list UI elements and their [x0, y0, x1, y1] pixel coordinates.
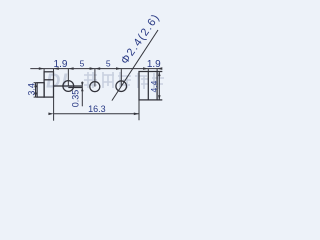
svg-text:0.35: 0.35 [71, 90, 81, 108]
dim 16.3 extension line right [138, 100, 140, 120]
top dimension line [30, 68, 161, 70]
dim 4.4 dimension line [158, 72, 160, 100]
svg-text:3.4: 3.4 [27, 83, 37, 96]
dim 3.4 dimension line [35, 83, 37, 97]
watermark [46, 71, 164, 93]
dim 3.4 arrows [34, 83, 37, 88]
left block divider [44, 79, 53, 81]
dim 1.9 left arrows [39, 67, 44, 70]
dim 4.4 arrows [158, 72, 161, 77]
dia leader line [112, 30, 158, 101]
left tab [37, 83, 44, 97]
extension line left block left edge [43, 69, 45, 72]
dim 16.3 arrows [48, 113, 53, 116]
right block [139, 72, 157, 100]
svg-text:5: 5 [80, 59, 85, 69]
dim 1.9 right arrows [143, 67, 148, 70]
dim 0.35 leader line [81, 82, 83, 107]
center line hole 1 [67, 69, 69, 86]
svg-text:5: 5 [106, 59, 111, 69]
extension line right block right edge [156, 69, 158, 72]
center line hole 2 [94, 69, 96, 87]
drawing lines [37, 72, 162, 100]
center line hole 3 [120, 69, 122, 87]
hole 3 [116, 81, 127, 92]
dim 5 second arrows [95, 67, 100, 70]
svg-text:1.9: 1.9 [147, 59, 161, 70]
svg-text:16.3: 16.3 [88, 104, 106, 114]
left block [44, 72, 53, 97]
strip bottom edge [68, 87, 82, 89]
right block top edge extension [157, 71, 162, 73]
hole 1 [63, 81, 74, 92]
right block divider [147, 72, 149, 100]
dim 5 first arrows [68, 67, 73, 70]
dim 3.4 extension ticks [34, 82, 38, 84]
svg-text:4.4: 4.4 [149, 80, 159, 92]
dimension texts [27, 12, 163, 115]
dim 16.3 extension line left [53, 97, 55, 120]
svg-text:1.9: 1.9 [54, 59, 68, 70]
arrowheads [34, 67, 162, 115]
dim 16.3 dimension line [54, 113, 139, 115]
hole 2 [90, 82, 100, 92]
right block bottom edge extension [157, 99, 162, 101]
extension line left block right edge [53, 69, 55, 72]
strip top edge [54, 85, 83, 87]
dim 0.35 arrows [81, 82, 84, 86]
extension line right block divider [147, 69, 149, 72]
